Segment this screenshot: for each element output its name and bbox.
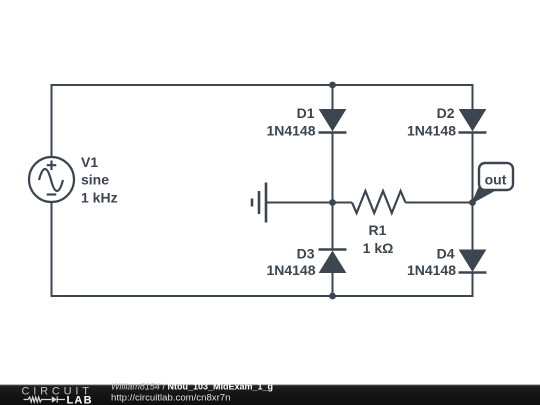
svg-text:1N4148: 1N4148: [266, 123, 315, 139]
svg-text:V1: V1: [81, 154, 98, 170]
wire left branch upper: [51, 84, 53, 157]
svg-text:1 kΩ: 1 kΩ: [363, 240, 394, 256]
wire top rail: [52, 84, 473, 86]
wire right branch bottom segment: [472, 273, 474, 298]
node A junction dot: [329, 82, 336, 89]
svg-text:sine: sine: [81, 172, 109, 188]
svg-text:D4: D4: [437, 246, 455, 262]
wire right branch mid segment: [472, 134, 474, 251]
voltage source V1: [29, 157, 74, 202]
logo squiggle diode: [52, 396, 57, 402]
svg-text:D3: D3: [297, 246, 315, 262]
svg-text:D1: D1: [297, 105, 315, 121]
node C junction dot: [329, 293, 336, 300]
diode D4: [459, 250, 487, 273]
wire bottom rail: [52, 295, 473, 297]
svg-text:1N4148: 1N4148: [407, 262, 456, 278]
resistor R1: [352, 191, 406, 213]
svg-text:out: out: [485, 172, 507, 188]
svg-text:1N4148: 1N4148: [407, 123, 456, 139]
svg-text:William8154 / Ntou_103_MidExam: William8154 / Ntou_103_MidExam_1_g: [111, 382, 273, 392]
ground: [252, 183, 266, 223]
wire middle branch (x=332.5) top segment: [332, 85, 334, 110]
wire ground to node A: [266, 202, 352, 204]
wire left branch lower: [51, 202, 53, 297]
svg-text:LAB: LAB: [67, 395, 93, 405]
node out junction dot: [469, 199, 476, 206]
node B junction dot: [329, 199, 336, 206]
diode D1: [319, 110, 347, 133]
logo squiggle wire: [24, 396, 66, 402]
footer bar: [0, 384, 540, 405]
svg-text:R1: R1: [369, 222, 387, 238]
svg-text:D2: D2: [437, 105, 455, 121]
node out flag: [473, 163, 514, 203]
diode D2: [459, 110, 487, 133]
svg-text:1N4148: 1N4148: [266, 262, 315, 278]
svg-text:http://circuitlab.com/cn8xr7n: http://circuitlab.com/cn8xr7n: [111, 393, 230, 404]
wire resistor to node B: [406, 202, 473, 204]
wire middle branch bottom segment: [332, 273, 334, 297]
wire right branch (x=472.5) top segment: [472, 84, 474, 110]
svg-text:1 kHz: 1 kHz: [81, 190, 118, 206]
wire middle branch mid segment: [332, 134, 334, 251]
diode D3: [319, 250, 347, 273]
